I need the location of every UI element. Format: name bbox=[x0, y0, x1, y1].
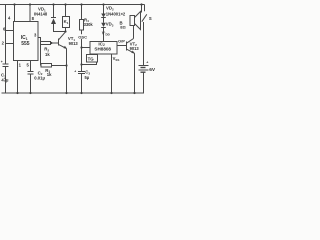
switch S bbox=[142, 5, 147, 66]
junction dot emitter-R3 node bbox=[65, 64, 67, 66]
diode VD1 1N4148 bbox=[51, 5, 66, 32]
wire O/P to VT2 base bbox=[117, 45, 127, 47]
wire VSS to ground bbox=[111, 55, 113, 94]
transistor VT2 9013 bbox=[127, 39, 135, 54]
svg-text:+: + bbox=[74, 70, 76, 74]
junction dot VD1-collector node bbox=[64, 30, 66, 32]
svg-text:+: + bbox=[1, 60, 3, 64]
wire C2 to ground bbox=[30, 74, 32, 94]
svg-text:OSC: OSC bbox=[78, 34, 87, 39]
svg-text:47µ: 47µ bbox=[1, 78, 9, 83]
relay K1 bbox=[63, 17, 70, 28]
svg-text:5µ: 5µ bbox=[85, 75, 90, 80]
svg-text:555: 555 bbox=[21, 41, 30, 47]
wire R3 to emitter line bbox=[52, 65, 67, 67]
wire left vertical below C1 to ground bbox=[5, 67, 7, 94]
TG pin block bbox=[87, 55, 98, 63]
wire pin 4 to rail bbox=[14, 5, 16, 22]
junction dots ground rail bbox=[16, 92, 135, 94]
wire C3 to ground bbox=[81, 74, 83, 94]
capacitor C1 bbox=[1, 60, 9, 67]
wire pin 5 to C2 bbox=[30, 61, 32, 72]
wire R4 down to OSC node and C3 bbox=[81, 30, 83, 72]
diode VD3 bbox=[101, 18, 106, 42]
svg-text:+: + bbox=[146, 60, 148, 64]
svg-text:0.01µ: 0.01µ bbox=[34, 76, 45, 81]
junction dots top rail bbox=[13, 3, 142, 5]
IC U1 555 timer box bbox=[14, 22, 39, 61]
IC U2 SH8808 music chip bbox=[90, 42, 117, 55]
speaker B bbox=[130, 12, 141, 30]
wire pin 8 to rail bbox=[29, 5, 31, 22]
wire VT1 emitter to ground bbox=[66, 49, 68, 94]
svg-text:K1: K1 bbox=[64, 19, 69, 25]
svg-text:TG: TG bbox=[88, 57, 95, 62]
wire VT2 collector to speaker bbox=[133, 26, 135, 39]
resistor R3 bbox=[41, 64, 52, 68]
capacitor C3 bbox=[74, 70, 85, 74]
svg-text:9013: 9013 bbox=[130, 46, 140, 51]
wire TG pin to C3 node bbox=[82, 62, 97, 65]
battery GB 6V bbox=[139, 60, 149, 93]
wire left vertical to C1 bbox=[5, 5, 7, 65]
svg-text:S: S bbox=[149, 16, 152, 21]
resistor R2 bbox=[41, 42, 51, 45]
wire top supply rail bbox=[0, 4, 145, 6]
junction dot TG node bbox=[80, 63, 82, 65]
capacitor C2 bbox=[28, 72, 34, 75]
svg-text:IN4148: IN4148 bbox=[34, 11, 48, 16]
resistor R4 330k bbox=[80, 20, 84, 31]
wire ground rail bbox=[2, 92, 144, 94]
wire pin 1 to ground bbox=[17, 61, 19, 94]
svg-text:8Ω: 8Ω bbox=[120, 25, 126, 30]
svg-text:1k: 1k bbox=[47, 72, 52, 77]
diode VD2 1N4001 bbox=[101, 5, 106, 18]
wire OSC pin to IC2 bbox=[82, 47, 91, 49]
svg-text:1k: 1k bbox=[45, 52, 50, 57]
svg-text:1N4001×2: 1N4001×2 bbox=[106, 11, 126, 16]
svg-text:6V: 6V bbox=[149, 67, 156, 73]
junction dot R2 output node bbox=[50, 42, 52, 44]
label OSC bbox=[78, 34, 89, 39]
svg-text:SH8808: SH8808 bbox=[94, 47, 111, 52]
wire pin 6 stub bbox=[6, 30, 14, 32]
svg-text:330k: 330k bbox=[84, 22, 94, 27]
wire pin 2 stub bbox=[6, 43, 14, 45]
junction dot OSC node bbox=[80, 46, 82, 48]
svg-text:9013: 9013 bbox=[69, 41, 79, 46]
svg-text:VD3: VD3 bbox=[106, 22, 114, 28]
wire VT2 emitter to ground bbox=[134, 53, 136, 93]
svg-text:O/P: O/P bbox=[118, 38, 125, 43]
wire K1 to rail bbox=[65, 5, 67, 17]
wire pin 3 output bbox=[39, 38, 41, 66]
transistor VT1 9013 bbox=[59, 32, 67, 49]
wire K1 to VT1 collector bbox=[65, 28, 67, 32]
wire R2 to VT1 base bbox=[51, 42, 59, 44]
wire speaker to rail bbox=[141, 5, 142, 13]
